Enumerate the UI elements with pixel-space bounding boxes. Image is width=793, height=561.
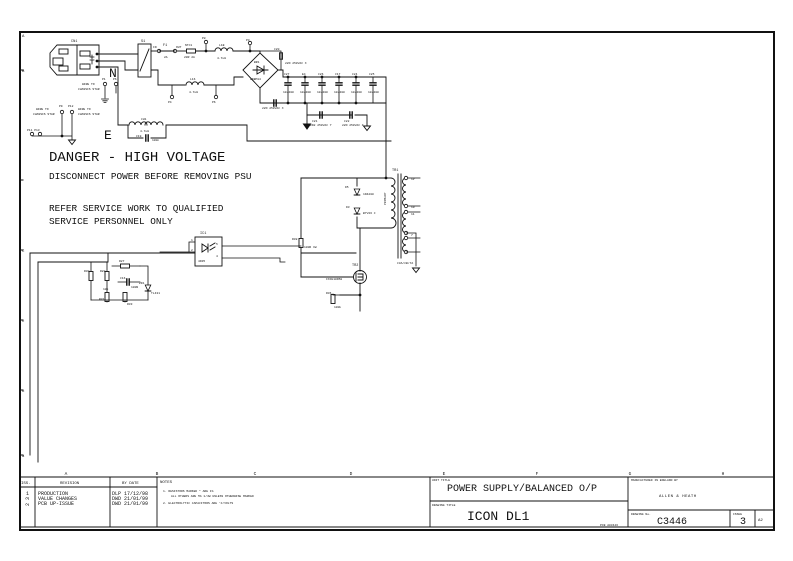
svg-text:R27: R27 bbox=[119, 260, 125, 263]
wire star bus bbox=[32, 114, 72, 140]
wire gate drive bbox=[301, 178, 356, 277]
svg-text:C27: C27 bbox=[284, 73, 290, 76]
wire primary top feed bbox=[386, 177, 391, 179]
wire to Y caps bbox=[307, 103, 351, 115]
svg-text:PRIMARY: PRIMARY bbox=[384, 192, 387, 205]
svg-text:BR1: BR1 bbox=[254, 61, 260, 64]
svg-text:1: 1 bbox=[26, 491, 29, 497]
svg-text:D3: D3 bbox=[346, 206, 350, 209]
svg-text:C19: C19 bbox=[136, 135, 142, 138]
svg-text:DWD 21/01/99: DWD 21/01/99 bbox=[112, 501, 148, 507]
svg-text:a: a bbox=[22, 455, 25, 459]
svg-text:PCB A03446: PCB A03446 bbox=[600, 524, 618, 527]
node P4 bbox=[170, 95, 173, 98]
resistor R31 bbox=[105, 293, 109, 302]
transformer pins bbox=[404, 176, 407, 179]
capacitor C22 bbox=[350, 112, 352, 118]
border row letters left bbox=[22, 35, 25, 459]
wire L16 to bridge AC2 bbox=[204, 77, 243, 85]
svg-text:P6: P6 bbox=[113, 78, 117, 81]
node P6b bbox=[214, 95, 217, 98]
wire - rail bbox=[260, 88, 386, 103]
node L bbox=[96, 53, 99, 56]
capacitor C19 bbox=[146, 135, 148, 141]
svg-text:C21: C21 bbox=[312, 120, 318, 123]
svg-text:R30: R30 bbox=[84, 270, 90, 273]
svg-text:WIRE TO: WIRE TO bbox=[36, 108, 49, 111]
svg-text:L1B: L1B bbox=[219, 44, 225, 47]
node P8 bbox=[205, 50, 208, 53]
opto coupler IC1 bbox=[195, 237, 222, 266]
svg-text:E4: E4 bbox=[302, 73, 306, 76]
svg-text:REVISION: REVISION bbox=[60, 482, 80, 486]
svg-text:10/400: 10/400 bbox=[351, 90, 362, 94]
svg-text:REFER SERVICE WORK TO QUALIFIE: REFER SERVICE WORK TO QUALIFIED bbox=[49, 203, 224, 214]
svg-text:R33: R33 bbox=[127, 303, 133, 306]
svg-text:1D: 1D bbox=[411, 206, 415, 209]
svg-text:OUT: OUT bbox=[176, 46, 182, 49]
svg-text:H: H bbox=[722, 471, 725, 477]
svg-text:NTC1: NTC1 bbox=[185, 44, 192, 47]
bridge rectifier BR1 bbox=[243, 53, 278, 88]
capacitor C20 bbox=[280, 53, 282, 59]
svg-text:R36: R36 bbox=[326, 292, 332, 295]
node E bbox=[96, 66, 99, 69]
wire NTC1 to L1B bbox=[196, 50, 215, 52]
inductor L1B bbox=[215, 48, 233, 51]
wire secondary taps bbox=[406, 178, 420, 266]
revision table bbox=[20, 477, 774, 527]
svg-text:P12: P12 bbox=[68, 105, 74, 108]
node P12 bbox=[70, 110, 73, 113]
wire E down bbox=[97, 67, 118, 125]
svg-text:ISS.: ISS. bbox=[21, 482, 31, 486]
svg-text:NOTES: NOTES bbox=[160, 481, 173, 485]
svg-text:DRAWING No.: DRAWING No. bbox=[631, 513, 651, 516]
svg-text:DANGER - HIGH VOLTAGE: DANGER - HIGH VOLTAGE bbox=[49, 150, 225, 166]
wire left feedback loop bbox=[30, 253, 38, 462]
resistor R33 bbox=[123, 293, 127, 302]
svg-text:P6: P6 bbox=[212, 101, 216, 104]
svg-text:D5: D5 bbox=[345, 186, 349, 189]
wire primary bottom to snubber/drain bbox=[357, 178, 391, 271]
svg-text:IC1: IC1 bbox=[200, 232, 206, 236]
svg-text:B: B bbox=[156, 471, 159, 477]
svg-text:C16: C16 bbox=[120, 277, 126, 280]
resistor R28 bbox=[105, 272, 109, 281]
node N bbox=[96, 60, 99, 63]
wire L to switch bbox=[97, 53, 138, 55]
ground bbox=[69, 140, 76, 145]
svg-text:C22: C22 bbox=[344, 120, 350, 123]
wire snubber bus bbox=[30, 253, 195, 262]
svg-text:11: 11 bbox=[411, 213, 415, 216]
svg-text:2KBP04: 2KBP04 bbox=[250, 78, 261, 81]
svg-text:22N 250VAC X: 22N 250VAC X bbox=[285, 62, 307, 65]
svg-text:4N35: 4N35 bbox=[198, 260, 205, 263]
svg-text:TR1: TR1 bbox=[392, 169, 398, 173]
svg-text:R28: R28 bbox=[100, 270, 106, 273]
svg-text:C25: C25 bbox=[369, 73, 375, 76]
svg-text:10/400: 10/400 bbox=[334, 90, 345, 94]
svg-text:CH1: CH1 bbox=[141, 118, 147, 121]
svg-text:S1: S1 bbox=[141, 40, 145, 44]
svg-text:E: E bbox=[443, 471, 446, 477]
svg-text:P4: P4 bbox=[168, 101, 172, 104]
nodes P11 P13 bbox=[30, 132, 33, 135]
svg-text:ALLEN & HEATH: ALLEN & HEATH bbox=[659, 495, 697, 499]
svg-text:CHASSIS STAR: CHASSIS STAR bbox=[78, 88, 100, 91]
svg-text:1: 1 bbox=[191, 239, 193, 242]
svg-text:10k: 10k bbox=[103, 287, 109, 291]
svg-text:E: E bbox=[104, 128, 112, 143]
svg-text:A2: A2 bbox=[758, 519, 763, 523]
svg-text:P9: P9 bbox=[59, 105, 63, 108]
capacitor C16 bbox=[127, 279, 129, 285]
MOSFET TR2 bbox=[354, 271, 367, 284]
svg-text:BY DATE: BY DATE bbox=[122, 482, 139, 486]
resistor R30 bbox=[89, 272, 93, 281]
thermistor NTC1 bbox=[187, 49, 196, 53]
resistor R38 bbox=[299, 239, 303, 248]
wire to earth bbox=[105, 86, 116, 98]
zener ZD1 bbox=[145, 285, 151, 291]
warning texts bbox=[49, 66, 252, 227]
svg-text:C26: C26 bbox=[318, 73, 324, 76]
svg-text:F1: F1 bbox=[163, 44, 167, 48]
wire HT rail top to smps bbox=[301, 177, 386, 179]
diode D3 BYV26 bbox=[354, 208, 360, 214]
wire N to switch bbox=[97, 61, 138, 70]
svg-text:PCB UP-ISSUE: PCB UP-ISSUE bbox=[38, 501, 74, 507]
svg-text:10/400: 10/400 bbox=[368, 90, 379, 94]
svg-text:P11 P13: P11 P13 bbox=[27, 129, 40, 132]
svg-text:C3A/CB/7A: C3A/CB/7A bbox=[397, 261, 413, 265]
earth wire E to CH1 bbox=[118, 125, 391, 141]
border column letters bottom bbox=[65, 471, 725, 477]
node P3 bbox=[249, 50, 252, 53]
svg-text:L16: L16 bbox=[190, 78, 196, 81]
chassis ground bbox=[306, 115, 308, 124]
svg-text:100N: 100N bbox=[131, 286, 138, 289]
svg-text:1P: 1P bbox=[411, 178, 415, 181]
svg-text:IN: IN bbox=[153, 46, 157, 49]
svg-text:C20: C20 bbox=[274, 48, 280, 51]
svg-text:TL431: TL431 bbox=[151, 292, 160, 295]
earth symbol bbox=[102, 99, 109, 103]
svg-text:2: 2 bbox=[191, 249, 193, 252]
svg-text:R38: R38 bbox=[292, 238, 298, 241]
svg-text:2 3: 2 3 bbox=[25, 497, 31, 506]
svg-text:1N4200: 1N4200 bbox=[363, 193, 374, 196]
svg-text:2A: 2A bbox=[164, 56, 168, 59]
wire fuse to NTC1 bbox=[177, 50, 186, 52]
switch S1 bbox=[138, 44, 151, 77]
svg-text:C: C bbox=[22, 250, 25, 254]
svg-text:G: G bbox=[629, 471, 632, 477]
svg-text:b: b bbox=[22, 389, 25, 394]
svg-text:20R 2A: 20R 2A bbox=[184, 56, 195, 59]
svg-text:B: B bbox=[22, 70, 25, 74]
svg-text:3: 3 bbox=[740, 517, 746, 528]
wire IC1 pins bbox=[160, 242, 301, 262]
svg-text:ICON DL1: ICON DL1 bbox=[467, 509, 530, 524]
capacitor C21 bbox=[320, 112, 322, 118]
svg-text:C17: C17 bbox=[335, 73, 341, 76]
capacitor bank C27 E4 C26 C17 C24 C25 bbox=[283, 73, 379, 104]
svg-text:100R 1W: 100R 1W bbox=[304, 246, 317, 249]
svg-text:A: A bbox=[65, 471, 68, 477]
resistor R36 bbox=[331, 295, 335, 304]
fuse F1 bbox=[157, 49, 160, 52]
svg-text:c: c bbox=[22, 320, 25, 324]
svg-text:DISCONNECT POWER BEFORE REMOVI: DISCONNECT POWER BEFORE REMOVING PSU bbox=[49, 171, 252, 182]
node P9 bbox=[60, 110, 63, 113]
svg-text:2. ELECTROLYTIC CAPACITORS AR: 2. ELECTROLYTIC CAPACITORS ARE 'F/VOLTS bbox=[163, 501, 233, 505]
svg-text:22N 250VAC X: 22N 250VAC X bbox=[262, 107, 284, 110]
svg-text:ZD1: ZD1 bbox=[139, 282, 145, 285]
svg-text:BYV26 C: BYV26 C bbox=[363, 212, 376, 215]
svg-text:POWER SUPPLY/BALANCED O/P: POWER SUPPLY/BALANCED O/P bbox=[447, 483, 597, 495]
svg-text:2N2 250VAC Y: 2N2 250VAC Y bbox=[310, 124, 332, 127]
svg-text:UNIT TITLE: UNIT TITLE bbox=[432, 479, 450, 482]
svg-text:P1: P1 bbox=[102, 78, 106, 81]
svg-text:P3: P3 bbox=[246, 39, 250, 42]
svg-text:1. RESISTORS MARKED * ARE 1%: 1. RESISTORS MARKED * ARE 1% bbox=[163, 489, 214, 493]
svg-text:100n: 100n bbox=[152, 139, 159, 142]
svg-text:F: F bbox=[536, 471, 539, 477]
wire switch bottom to L16 bbox=[151, 70, 185, 85]
capacitor C34 bbox=[274, 100, 276, 106]
svg-text:MANUFACTURED IN ENGLAND BY: MANUFACTURED IN ENGLAND BY bbox=[631, 479, 678, 482]
revision table text bbox=[21, 481, 254, 507]
inductor CH1 bbox=[129, 122, 147, 125]
inductor L16 bbox=[186, 82, 204, 85]
resistor R27 bbox=[121, 264, 130, 268]
wire + rail bbox=[278, 70, 386, 178]
svg-text:10/400: 10/400 bbox=[317, 90, 328, 94]
wire source sense bbox=[340, 283, 360, 311]
svg-text:WIRE TO: WIRE TO bbox=[78, 108, 91, 111]
svg-text:TR2: TR2 bbox=[352, 264, 358, 268]
svg-text:7: 7 bbox=[411, 234, 413, 237]
svg-text:CHASSIS STAR: CHASSIS STAR bbox=[78, 113, 100, 116]
svg-text:5: 5 bbox=[216, 243, 218, 246]
svg-text:4: 4 bbox=[216, 255, 218, 258]
svg-text:DRAWING TITLE: DRAWING TITLE bbox=[432, 504, 456, 507]
svg-text:C24: C24 bbox=[352, 73, 358, 76]
wire bottom snubber bbox=[91, 300, 148, 302]
ground bbox=[355, 115, 367, 126]
svg-text:10/400: 10/400 bbox=[300, 90, 311, 94]
svg-text:P8: P8 bbox=[202, 37, 206, 40]
wire L1B to bridge bbox=[233, 51, 260, 53]
svg-text:100k: 100k bbox=[334, 305, 341, 309]
svg-text:4.7uH: 4.7uH bbox=[140, 130, 149, 133]
svg-text:ISSUE: ISSUE bbox=[733, 513, 742, 516]
wire switch to fuse bbox=[151, 50, 157, 52]
svg-text:IXFH10N50: IXFH10N50 bbox=[326, 278, 342, 281]
svg-text:CHASSIS STAR: CHASSIS STAR bbox=[33, 113, 55, 116]
svg-text:R31: R31 bbox=[99, 298, 105, 301]
svg-text:CN1: CN1 bbox=[71, 40, 77, 44]
svg-text:A: A bbox=[22, 35, 25, 39]
svg-text:C3446: C3446 bbox=[657, 517, 687, 528]
diode D5 snubber bbox=[354, 189, 360, 195]
svg-text:ALL OTHERS ARE 5% 1/4W UNLESS: ALL OTHERS ARE 5% 1/4W UNLESS OTHERWISE … bbox=[171, 494, 254, 498]
svg-text:D: D bbox=[350, 471, 353, 477]
svg-text:4.7uH: 4.7uH bbox=[189, 91, 198, 94]
svg-text:22N 250VAC X: 22N 250VAC X bbox=[342, 124, 364, 127]
connector CN1 (IEC inlet) bbox=[50, 45, 99, 75]
svg-text:WIRE TO: WIRE TO bbox=[82, 83, 95, 86]
ground bbox=[413, 268, 420, 273]
title block bbox=[430, 477, 774, 527]
svg-text:SERVICE PERSONNEL ONLY: SERVICE PERSONNEL ONLY bbox=[49, 216, 173, 227]
svg-text:C: C bbox=[254, 471, 257, 477]
svg-text:4.7uH: 4.7uH bbox=[217, 57, 226, 60]
svg-text:10/400: 10/400 bbox=[283, 90, 294, 94]
border tick marks left bbox=[20, 70, 23, 455]
